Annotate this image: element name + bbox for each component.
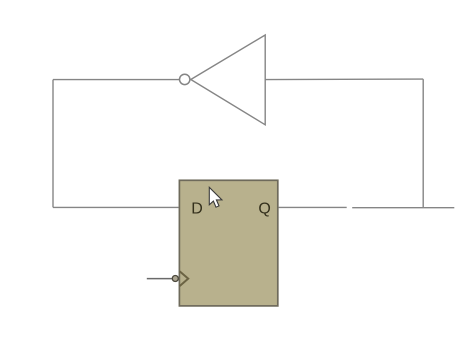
clock edge-trigger chevron <box>180 271 189 286</box>
wire: clock input stub <box>147 278 172 280</box>
wire: bottom-left horizontal into D input <box>53 206 179 208</box>
svg-text:Q: Q <box>258 201 270 218</box>
inverter output bubble <box>180 74 190 84</box>
op-amp style inverter U1 triangle (points left) <box>191 35 265 125</box>
wire: Q output horizontal segment <box>279 206 347 208</box>
clock input node dot <box>172 276 178 282</box>
wire: bottom-right horizontal segment past junction <box>352 207 454 209</box>
wire: top horizontal from inverter input to right rail <box>265 78 423 81</box>
D flip-flop U2 body <box>179 180 277 306</box>
svg-text:D: D <box>191 201 203 218</box>
wire: feedback left horizontal from inverter bubble to left rail <box>53 79 180 81</box>
wire: right vertical rail <box>422 79 424 207</box>
wire: left vertical rail <box>52 80 54 208</box>
mouse cursor <box>209 187 222 207</box>
